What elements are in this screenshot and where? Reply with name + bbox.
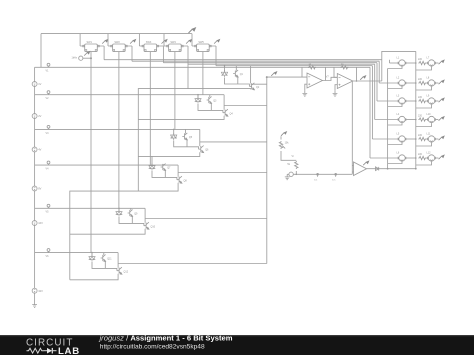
transistor Q2A [207, 97, 212, 104]
wire R2 to lamp [426, 82, 428, 84]
wire bit0 tap-collector riser [250, 66, 252, 84]
wire Q5A emitter drop [131, 216, 133, 224]
node flag tap b2 [47, 91, 50, 94]
op-amp U2 [337, 74, 353, 89]
wire Q10 emitter return [70, 229, 145, 234]
svg-text:4V: 4V [38, 148, 41, 152]
wire bus turn to row 3 [376, 63, 378, 101]
wire bit3 tap-collector riser [177, 165, 179, 177]
wire Q8 emitter loop [70, 183, 178, 280]
wire R5 to lamp [426, 138, 428, 140]
wire left reference rail [34, 67, 36, 302]
wire bit1 LED bottom run [198, 104, 223, 113]
current probe P2 [317, 173, 319, 177]
wire R6 to lamp [426, 157, 428, 159]
wire Q4A collector stub [163, 164, 165, 165]
svg-text:SW4: SW4 [170, 41, 176, 44]
node flag row 6 [439, 155, 445, 159]
wire tap net b3 from rail [35, 128, 200, 130]
LED D4 [149, 163, 156, 170]
node flag tap b5 [47, 204, 50, 207]
wire bus turn to row 1 [389, 60, 391, 63]
wire pot top stub [280, 136, 282, 139]
LED D3 [170, 133, 177, 140]
LED D1 [221, 70, 228, 77]
wire lamp L10 stub [435, 119, 438, 121]
resistor R5 [418, 137, 426, 140]
svg-text:Vr: Vr [292, 155, 295, 158]
lamp L4 [398, 116, 406, 122]
transistor Q4A [161, 164, 166, 171]
junction rail row 4 [415, 119, 417, 121]
wire bus turn to row 6 [369, 67, 371, 158]
wire R1 to lamp [426, 62, 428, 64]
svg-text:1m: 1m [332, 179, 335, 181]
switch SW2 [108, 44, 132, 52]
wire bit1 LED stub [197, 95, 199, 98]
wire bus line a4 [188, 63, 375, 65]
wire U1 feedback right leg [325, 67, 327, 80]
wire bit4 LED stub [118, 208, 120, 211]
lamp L3 [398, 98, 406, 104]
switch SW3 [139, 44, 163, 52]
wire lamp L12 return hook [416, 162, 432, 165]
wire lamp L5 return hook [388, 143, 402, 145]
wire SW4 bottom lead [174, 52, 176, 130]
wire bus line a2 [132, 60, 379, 62]
wire Q6A collector stub [103, 253, 105, 256]
wire tap flag stem b5 [48, 207, 50, 208]
transistor Q1A [233, 70, 238, 77]
logo resistor zigzag [27, 348, 44, 353]
node flag SW5 output [214, 40, 220, 44]
wire bit2 output [200, 141, 267, 143]
junction clock node [90, 57, 92, 59]
wire bit3 LED bottom run [152, 171, 177, 180]
wire lamp L10 return hook [416, 123, 432, 126]
junction rail row 5 [415, 138, 417, 140]
lamp L6 [398, 155, 406, 161]
LED D6 [89, 254, 96, 261]
svg-text:1m: 1m [314, 179, 317, 181]
svg-text:L10: L10 [427, 113, 432, 116]
lamp L12 [428, 155, 436, 161]
node flag clock [84, 52, 90, 56]
transistor Q1B [249, 83, 254, 90]
svg-text:1V: 1V [38, 82, 41, 86]
lamp L11 [428, 136, 436, 142]
wire bit2 tap-collector riser [199, 129, 201, 146]
node flag SW3 output [162, 40, 168, 44]
wire bit0 LED stub [224, 66, 226, 72]
switch SW5 [192, 44, 216, 52]
junction bit2 tap [173, 129, 175, 131]
junction supply rail bottom [415, 168, 417, 170]
wire row 2 feed [379, 82, 398, 84]
op-amp U4 [354, 162, 367, 176]
node flag row 2 [439, 80, 445, 84]
wire R4 to lamp [426, 119, 428, 121]
resistor R13 [295, 161, 298, 169]
node flag tap b3 [47, 125, 50, 128]
wire U1 output [323, 77, 338, 80]
junction bit4 tap [118, 208, 120, 210]
lamp L7 [428, 60, 436, 66]
wire tap flag stem b1 [48, 66, 50, 67]
svg-text:16V: 16V [38, 221, 43, 225]
wire SW3 output drop [162, 46, 164, 63]
wire tap flag stem b2 [48, 94, 50, 95]
wire row 6 feed [370, 157, 398, 159]
svg-text:1kHz: 1kHz [72, 56, 78, 59]
svg-text:Q12: Q12 [124, 270, 129, 273]
wire SW5 output drop [215, 46, 217, 66]
ground U1 [302, 91, 307, 96]
resistor RF1 [308, 66, 316, 69]
ground bottom rail [285, 174, 290, 179]
wire supply link [382, 51, 416, 81]
wire lamp L5 to rail [406, 138, 416, 140]
clock source VCLK [79, 56, 83, 60]
switch SW4 [164, 44, 188, 52]
voltage source V6 [32, 288, 37, 293]
wire Q2A emitter drop [210, 103, 212, 111]
junction bit5 tap [91, 252, 93, 254]
junction bit1 tap [197, 94, 199, 96]
wire meter to ground [287, 173, 289, 175]
svg-text:220: 220 [418, 78, 423, 81]
wire tap net b4 from rail [35, 164, 179, 166]
wire bus line a3 [163, 62, 377, 64]
junction R13 rail [296, 174, 298, 176]
lamp L8 [428, 80, 436, 86]
wire lamp L2 to rail [406, 82, 416, 84]
wire bit0 output [251, 83, 267, 85]
wire bit4 LED bottom run [119, 217, 144, 226]
wire SW4 output drop [187, 46, 189, 89]
wire bit5 tap-collector riser [117, 253, 119, 268]
node flag top rail [189, 28, 196, 33]
wire bit2 LED stub [173, 129, 175, 134]
wire collector bus vertical [266, 77, 268, 263]
transistor Q3B [199, 146, 204, 153]
svg-text:220: 220 [418, 153, 423, 156]
wire lamp L2 return hook [388, 87, 402, 89]
wire lamp L6 return hook [388, 162, 402, 164]
wire lamp L6 to rail [406, 157, 416, 159]
wire bit2 LED bottom run [174, 140, 199, 149]
svg-text:Q10: Q10 [151, 225, 156, 228]
op-amp U1 [307, 73, 323, 88]
wire U4 + stub [352, 171, 353, 173]
wire U1 + input leg [305, 84, 307, 91]
wire bus turn to row 5 [371, 66, 373, 139]
wire bit5 LED bottom run [92, 262, 117, 271]
wire SW5 bottom lead [202, 52, 204, 95]
wire Q2 emitter return [138, 89, 250, 192]
wire bit4 tap-collector riser [144, 208, 146, 222]
transistor Q4B [177, 176, 182, 183]
node flag row 1 [439, 60, 445, 64]
wire SW1 output drop [103, 46, 105, 60]
resistor R6 [418, 156, 426, 159]
svg-text:SW2: SW2 [114, 41, 120, 44]
junction rail row 2 [415, 82, 417, 84]
wire Q12 emitter return [70, 274, 118, 280]
wire SW2 output drop [131, 46, 133, 61]
ground U2 [333, 91, 338, 96]
svg-text:LAB: LAB [58, 346, 80, 355]
junction bit0 tap [224, 65, 226, 67]
current probe P3 [335, 173, 337, 177]
wire Q3A collector stub [185, 129, 187, 133]
svg-text:220: 220 [418, 96, 423, 99]
wire row 4 feed [375, 119, 399, 121]
wire bus line a1 [104, 59, 382, 61]
voltage source V1 [32, 82, 37, 87]
wire lamp L4 return hook [388, 123, 402, 125]
wire bit1 output [224, 105, 267, 107]
wire lamp L7 stub [435, 62, 438, 64]
wire top rail drop to SW1 [79, 34, 81, 46]
svg-text:SW5: SW5 [198, 41, 204, 44]
node flag row 5 [439, 136, 445, 140]
wire Q1A emitter drop [237, 76, 239, 84]
wire Q2A collector stub [209, 95, 211, 97]
wire U2 feedback left leg [334, 67, 337, 77]
LED D2 [195, 96, 202, 103]
wire top supply rail [41, 33, 192, 35]
resistor RF2 [341, 66, 349, 69]
wire Q1A collector stub [235, 66, 237, 71]
lamp L5 [398, 136, 406, 142]
transistor Q3A [182, 133, 187, 140]
wire Q4 emitter return [138, 116, 224, 120]
voltage source V3 [32, 147, 37, 152]
wire top rail drop to SW3 [138, 34, 140, 46]
transistor Q2B [223, 109, 228, 116]
wire SW1 bottom lead [90, 52, 92, 253]
wire tap net b5 from rail [35, 207, 146, 209]
wire Q5A collector stub [130, 208, 132, 210]
lamp L1 [398, 60, 406, 66]
node flag U1 input [271, 72, 277, 76]
footer bar [0, 335, 474, 355]
wire bit3 tap drop [151, 156, 153, 165]
lamp L2 [398, 80, 406, 86]
wire lamp L1 return hook [388, 67, 402, 69]
wire lamp L11 return hook [416, 143, 432, 146]
voltage source V4 [32, 186, 37, 191]
wire tap flag stem b4 [48, 164, 50, 165]
svg-text:220: 220 [418, 115, 423, 118]
node flag pot top [281, 132, 287, 136]
potentiometer P1 [279, 141, 282, 149]
wire tap flag stem b6 [48, 251, 50, 252]
wire R3 to lamp [426, 100, 428, 102]
svg-text:Q11: Q11 [107, 258, 112, 261]
node flag U2 output [360, 76, 366, 80]
wire lamp L9 return hook [416, 105, 432, 108]
node flag U4 [363, 161, 369, 165]
switch SW1 [80, 44, 104, 52]
node flag row 3 [439, 98, 445, 102]
transistor Q5B [144, 222, 149, 229]
svg-text:L11: L11 [427, 133, 431, 136]
wire SW2 bottom lead [118, 52, 120, 209]
resistor R3 [418, 99, 426, 102]
wire bus line b1 long (tap1) [35, 66, 370, 68]
meter A1 [289, 172, 293, 176]
wire clock to node [83, 57, 91, 59]
ground left rail [32, 302, 37, 307]
node flag tap b6 [47, 249, 50, 252]
wire bit1 tap-collector riser [223, 95, 225, 110]
svg-text:SW3: SW3 [146, 41, 152, 44]
wire Q4A emitter drop [164, 170, 166, 178]
svg-text:2V: 2V [38, 114, 41, 118]
lamp L10 [428, 116, 436, 122]
node flag tap b1 [47, 63, 50, 66]
node flag SW4 output [186, 40, 192, 44]
wire lamp L9 stub [435, 100, 438, 102]
wire row 5 feed [372, 138, 398, 140]
wire lamp L3 return hook [388, 105, 402, 107]
wire Q6 emitter return [138, 152, 200, 156]
node flag tap b4 [47, 161, 50, 164]
junction U2 out [356, 80, 358, 82]
wire bus turn to row 2 [378, 61, 380, 83]
wire U1 feedback left leg [301, 67, 303, 77]
transistor Q5A [128, 210, 133, 217]
resistor R4 [418, 118, 426, 121]
wire R13 to rail [295, 171, 297, 174]
wire pot bottom [281, 151, 296, 160]
junction rail row 3 [415, 100, 417, 102]
wire lamp L3 to rail [406, 100, 416, 102]
wire lamp L11 stub [435, 138, 438, 140]
transistor Q6B [117, 267, 122, 274]
junction rail row 1 [415, 62, 417, 64]
transistor Q6A [101, 255, 106, 262]
svg-text:L12: L12 [427, 152, 432, 155]
wire lamp L4 to rail [406, 119, 416, 121]
wire bus turn to row 4 [374, 64, 376, 119]
svg-text:jrogusz / Assignment 1 - 6 Bit: jrogusz / Assignment 1 - 6 Bit System [99, 333, 233, 342]
svg-text:8V: 8V [38, 187, 41, 191]
wire row 1 feed [390, 62, 399, 64]
wire U2 output [353, 80, 382, 82]
voltage source V5 [32, 221, 37, 226]
resistor R2 [418, 81, 426, 84]
voltage source V2 [32, 114, 37, 119]
wire U2 + input leg [335, 85, 337, 91]
junction rail row 6 [415, 157, 417, 159]
wire lamp L1 to rail [406, 62, 416, 64]
wire U1 input line [267, 76, 307, 78]
wire bit5 LED stub [91, 253, 93, 256]
wire lamp L8 stub [435, 82, 438, 84]
wire bit3 LED stub [151, 164, 153, 166]
node flag SW1 output [102, 40, 108, 44]
wire U2 to U4 sense line [351, 81, 353, 174]
svg-text:220: 220 [418, 134, 423, 137]
wire top rail left drop [40, 34, 42, 68]
svg-text:http://circuitlab.com/ced82vsn: http://circuitlab.com/ced82vsn5kp48 [100, 343, 205, 350]
wire U2 feedback right leg [356, 67, 358, 81]
wire lamp return rail [387, 69, 389, 169]
diode D13 [376, 167, 379, 171]
wire top rail drop to SW2 [107, 34, 109, 46]
wire tap flag stem b3 [48, 128, 50, 129]
logo diode symbol [44, 350, 47, 352]
wire bus line a5 [216, 65, 372, 67]
LED D5 [116, 209, 123, 216]
lamp L9 [428, 98, 436, 104]
wire bit5 output [118, 263, 267, 265]
wire bit0 LED bottom run [225, 78, 250, 87]
wire pot wiper [282, 146, 285, 149]
wire lamp supply rail [415, 51, 417, 168]
junction bit3 tap [151, 164, 153, 166]
svg-text:32V: 32V [38, 289, 43, 293]
wire row 3 feed [377, 100, 398, 102]
wire top rail drop to SW4 [163, 34, 165, 46]
wire bit4 output [145, 218, 267, 220]
resistor R1 [418, 61, 426, 64]
wire lamp L12 stub [435, 157, 438, 159]
wire bottom sense rail [293, 173, 352, 175]
wire U4 - stub [352, 165, 353, 167]
wire lamp L7 return hook [416, 67, 432, 70]
node flag SW2 output [130, 40, 136, 44]
junction return rail bottom [387, 168, 389, 170]
wire Q6A emitter drop [104, 261, 106, 269]
wire tap net b2 from rail [35, 94, 225, 96]
junction collector bus top [266, 76, 268, 78]
wire SW3 bottom lead [149, 52, 151, 166]
wire bit3 output [178, 172, 267, 174]
wire lamp L8 return hook [416, 87, 432, 90]
node flag row 4 [439, 117, 445, 121]
svg-text:220: 220 [418, 58, 423, 61]
wire top rail drop to SW5 [191, 34, 193, 46]
wire tap net b6 from rail [35, 252, 119, 254]
svg-text:SW1: SW1 [87, 41, 93, 44]
wire Q3A emitter drop [186, 139, 188, 147]
wire U4 output [367, 168, 416, 170]
